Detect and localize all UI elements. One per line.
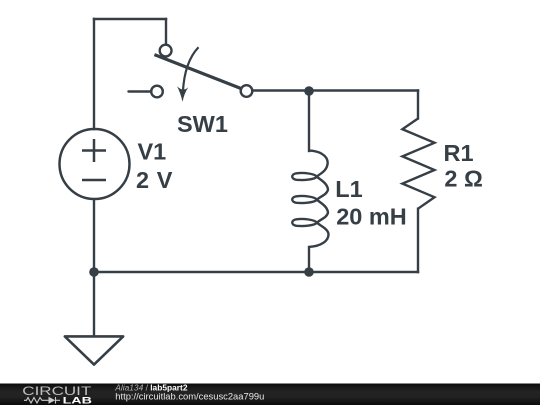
switch right terminal <box>241 85 253 97</box>
switch left terminal <box>151 86 163 98</box>
switch SW1 <box>129 45 253 98</box>
svg-text:2 Ω: 2 Ω <box>444 166 482 192</box>
node junction top (inductor tap) <box>304 86 314 96</box>
switch blade <box>154 55 241 89</box>
label L1 value <box>335 176 406 230</box>
switch top terminal <box>160 45 172 57</box>
label V1 value <box>136 139 173 194</box>
resistor R1 <box>402 119 434 209</box>
wire: bottom horizontal <box>94 271 418 273</box>
svg-text:L1: L1 <box>335 176 362 202</box>
CircuitLab logo resistor+diode glyph <box>24 397 60 404</box>
node junction bottom-left (ground tap) <box>89 267 99 277</box>
svg-text:SW1: SW1 <box>177 111 228 137</box>
node junction bottom (inductor tap) <box>304 267 314 277</box>
wire: resistor bottom to bottom-right corner <box>417 209 419 272</box>
svg-text:http://circuitlab.com/cesusc2a: http://circuitlab.com/cesusc2aa799u <box>115 390 264 401</box>
switch arrow head <box>177 86 188 102</box>
wire: top right corner down to resistor <box>417 91 419 119</box>
wire: inductor bottom feed <box>308 247 310 272</box>
switch motion arrow <box>183 47 199 92</box>
wire: top-left vertical from top corner to V1 top <box>93 19 95 129</box>
wire: ground feed <box>93 272 95 336</box>
inductor L1 <box>292 151 328 247</box>
svg-text:2 V: 2 V <box>136 167 173 193</box>
ground symbol <box>65 336 123 364</box>
wire: down to switch top terminal <box>165 19 167 45</box>
wire: inductor top feed <box>308 91 310 152</box>
switch left stub wire <box>129 90 152 92</box>
wire: top horizontal <box>94 18 166 20</box>
svg-text:20 mH: 20 mH <box>336 204 407 230</box>
voltage source V1 <box>60 129 130 199</box>
wire: switch right terminal to right branch <box>252 89 418 91</box>
svg-text:R1: R1 <box>444 140 474 166</box>
footer bar <box>0 384 540 405</box>
svg-text:V1: V1 <box>138 139 167 165</box>
wire: V1 bottom to bottom wire <box>93 200 95 272</box>
label R1 value <box>444 140 483 192</box>
svg-text:LAB: LAB <box>63 395 92 405</box>
